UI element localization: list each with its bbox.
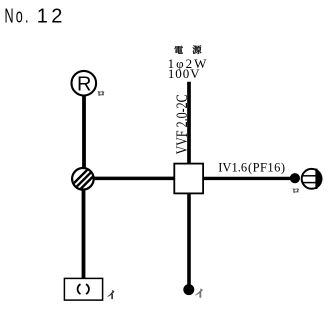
conduit label IV 1.6 (PF16) [218,160,285,174]
svg-text:No.: No. [5,5,31,28]
wire: joint box to outlet box [91,177,174,181]
svg-text:1.6: 1.6 [232,160,248,174]
wire: outlet box down to switch i [187,193,191,286]
label i (switch) [195,289,203,298]
lamp receptacle R [72,71,97,96]
svg-text:R: R [77,74,91,96]
label i (ceiling rose) [108,290,115,299]
ceiling rose (rect with parentheses) [64,278,102,300]
wire: joint box down to ceiling rose [82,189,86,279]
power source label: dian gen (electric source) [174,45,201,54]
svg-text:(PF16): (PF16) [248,160,285,174]
VVF joint box (hatched circle) [69,165,99,195]
wall outlet (circle with filled chord and lines) [302,169,322,189]
svg-text:2: 2 [51,6,62,28]
wire: power source down to outlet box [187,82,191,165]
wire: lamp receptacle down to joint box [82,95,86,169]
svg-text:1: 1 [37,6,48,28]
svg-text:VVF 2.0-2C: VVF 2.0-2C [173,94,191,154]
outlet box (square) [174,164,203,194]
svg-text:IV: IV [218,160,231,174]
label ro (switch) [293,188,299,192]
switch ro (filled circle) [290,173,300,183]
svg-text:100V: 100V [168,66,201,81]
wire: outlet box right to switch ro [203,177,291,180]
title "No. 1 2" [5,5,63,28]
switch i (filled circle) [183,284,194,295]
label ro (lamp receptacle) [98,91,105,96]
